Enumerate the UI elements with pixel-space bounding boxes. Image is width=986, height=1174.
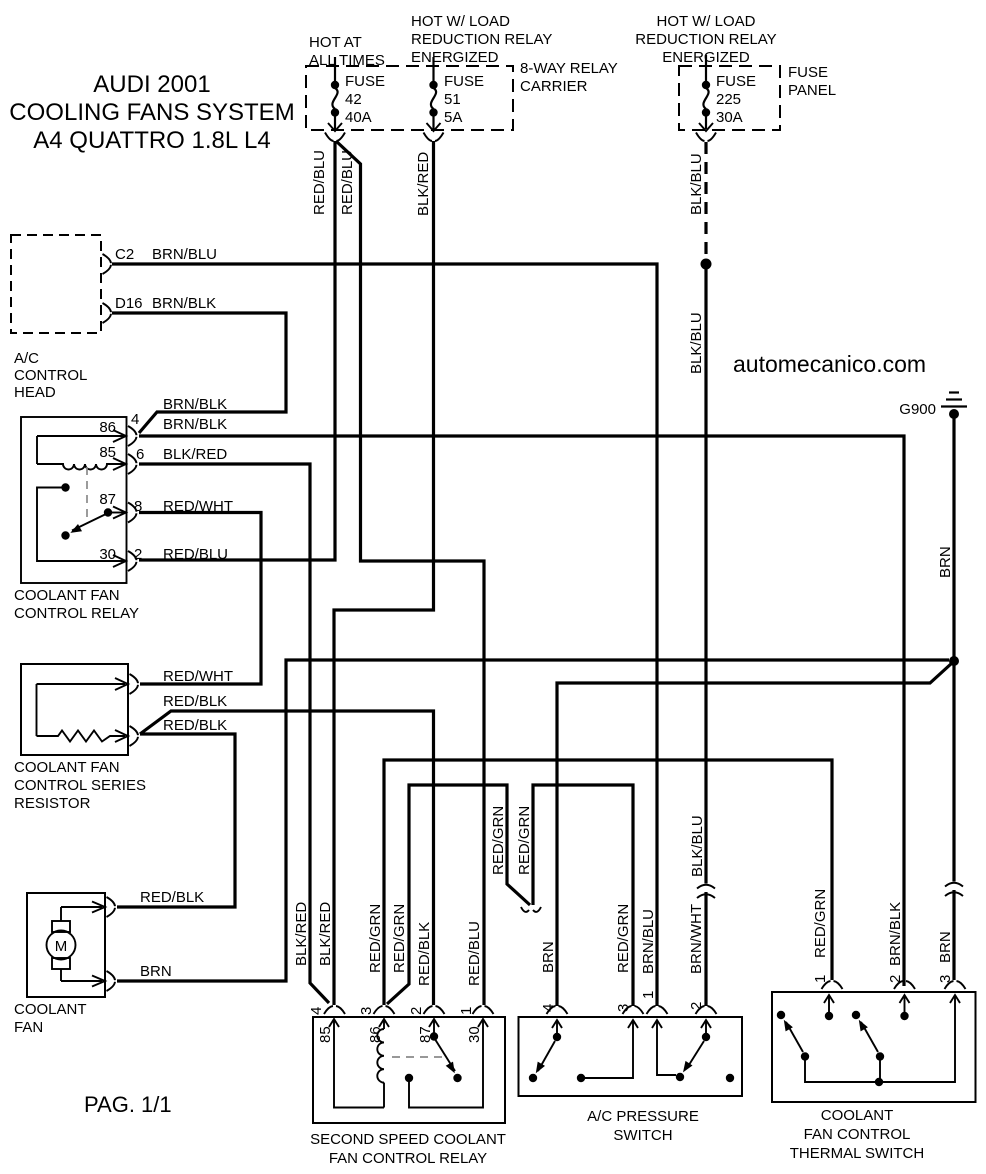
svg-text:3: 3 (937, 975, 954, 983)
svg-text:BRN/BLK: BRN/BLK (152, 295, 216, 312)
wire RED/WHT from relay pin 8 down to series resistor (139, 513, 261, 685)
svg-text:RED/BLK: RED/BLK (163, 693, 227, 710)
svg-text:2: 2 (408, 1007, 425, 1015)
svg-text:5A: 5A (444, 109, 462, 126)
wire RED/BLK from resistor to second speed relay pin 2 (140, 711, 434, 1005)
svg-text:A/C PRESSURE: A/C PRESSURE (587, 1108, 699, 1125)
coolant fan control series resistor box (21, 664, 128, 755)
svg-text:225: 225 (716, 91, 741, 108)
thermal switch pin 1 internal (824, 995, 834, 1003)
svg-text:RED/BLK: RED/BLK (163, 717, 227, 734)
connector fan bottom pin (107, 971, 116, 991)
wire BLK/BLU dashed from F225 to splice (704, 142, 707, 261)
resistor element (37, 731, 126, 742)
svg-text:BLK/RED: BLK/RED (415, 152, 432, 216)
svg-text:BRN/WHT: BRN/WHT (688, 904, 705, 974)
svg-text:RED/GRN: RED/GRN (490, 806, 507, 875)
thermal switch left contact and arm (777, 1011, 785, 1019)
terminal 86 internal with coil (379, 1019, 389, 1027)
wire BRN from junction down to thermal switch pin 3 (952, 664, 955, 882)
wire BRN/WHT from inline connector to A/C pressure switch pin 2 (704, 892, 707, 1006)
pressure switch pin 3 internal (577, 1074, 585, 1082)
wire BLK/RED from relay pin 6 down to second speed relay pin 4 (139, 464, 329, 1003)
svg-text:COOLANT: COOLANT (821, 1107, 894, 1124)
thermal switch center contact and arm (852, 1011, 860, 1019)
wire BRN from ground down to junction (952, 418, 955, 658)
svg-text:RED/GRN: RED/GRN (516, 806, 533, 875)
ground G900 (899, 393, 967, 420)
svg-text:1: 1 (640, 991, 657, 999)
fuse F42 40A (328, 57, 385, 131)
svg-text:BRN/BLU: BRN/BLU (640, 909, 657, 974)
svg-text:M: M (55, 938, 68, 955)
svg-text:RED/BLU: RED/BLU (311, 150, 328, 215)
connector pin 3 of thermal switch (945, 981, 966, 989)
svg-text:A/C: A/C (14, 350, 39, 367)
wire BLK/BLU solid from splice down to inline connector (704, 267, 707, 884)
connector pin 8 of relay (128, 503, 137, 523)
svg-text:BLK/BLU: BLK/BLU (688, 153, 705, 215)
coolant fan control thermal switch box (772, 992, 976, 1102)
connector pin 4 of relay (128, 426, 137, 446)
svg-text:D16: D16 (115, 295, 143, 312)
svg-text:FUSE: FUSE (345, 73, 385, 90)
svg-text:COOLANT FAN: COOLANT FAN (14, 587, 120, 604)
splice S1 (701, 259, 712, 270)
A/C pressure switch box (519, 1017, 743, 1096)
connector pin 2 of thermal switch (894, 981, 915, 989)
svg-text:86: 86 (99, 419, 116, 436)
svg-text:A4 QUATTRO 1.8L L4: A4 QUATTRO 1.8L L4 (33, 127, 270, 154)
svg-text:FAN CONTROL RELAY: FAN CONTROL RELAY (329, 1150, 487, 1167)
svg-text:BLK/BLU: BLK/BLU (688, 312, 705, 374)
terminal 85 internal (329, 1019, 339, 1027)
connector below fuse F225 (696, 133, 716, 142)
pressure switch pin 4 internal (552, 1020, 562, 1028)
svg-text:RED/BLK: RED/BLK (140, 889, 204, 906)
wire RED/GRN from second speed relay pin 3 to inline connector (387, 785, 530, 1004)
svg-text:FUSE: FUSE (716, 73, 756, 90)
svg-text:BLK/RED: BLK/RED (317, 902, 334, 966)
svg-text:2: 2 (887, 975, 904, 983)
coolant fan control relay box (21, 417, 127, 583)
svg-text:30: 30 (99, 546, 116, 563)
svg-text:RED/GRN: RED/GRN (615, 904, 632, 973)
svg-text:BRN/BLK: BRN/BLK (163, 416, 227, 433)
svg-text:85: 85 (317, 1026, 334, 1043)
wire BRN/BLK from relay pin 4 right to thermal switch pin 2 (139, 436, 904, 986)
svg-text:PANEL: PANEL (788, 82, 836, 99)
svg-text:1: 1 (812, 975, 829, 983)
resistor internal top lead (37, 683, 126, 685)
svg-text:RED/WHT: RED/WHT (163, 668, 233, 685)
svg-text:FUSE: FUSE (788, 64, 828, 81)
svg-text:30A: 30A (716, 109, 743, 126)
connector pin 2 of pressure switch (696, 1006, 717, 1014)
connector pin C2 (103, 254, 112, 274)
pressure switch pin 2 internal (701, 1020, 711, 1028)
svg-text:87: 87 (417, 1026, 434, 1043)
svg-text:RED/BLU: RED/BLU (466, 921, 483, 986)
svg-text:BLK/RED: BLK/RED (293, 902, 310, 966)
connector pin 3 of pressure switch (623, 1006, 644, 1014)
terminal 30 internal (405, 1074, 413, 1082)
wire BLK/RED from F51 down, jog left, to second speed relay pin 4 (334, 141, 434, 1005)
svg-text:8-WAY RELAY: 8-WAY RELAY (520, 60, 618, 77)
wire BRN/BLK from D16 to coolant fan control relay pin 4 (112, 313, 286, 433)
svg-text:CONTROL RELAY: CONTROL RELAY (14, 605, 139, 622)
connector pin 1 of thermal switch (822, 981, 843, 989)
connector fan top pin (107, 897, 116, 917)
svg-text:AUDI 2001: AUDI 2001 (93, 71, 210, 98)
svg-text:BRN/BLK: BRN/BLK (163, 396, 227, 413)
wire RED/BLU from F42 straight down to relay pin 2 (139, 141, 335, 560)
svg-text:87: 87 (99, 491, 116, 508)
mechanical link (86, 467, 88, 517)
connector pin 2 of relay (128, 551, 137, 571)
svg-text:ENERGIZED: ENERGIZED (411, 49, 499, 66)
svg-text:3: 3 (615, 1004, 632, 1012)
connector pin 4 (85) (324, 1006, 345, 1014)
svg-text:RED/GRN: RED/GRN (812, 889, 829, 958)
terminal 87 internal switch (429, 1019, 439, 1027)
fan motor M (47, 931, 76, 960)
second speed coolant fan control relay box (313, 1017, 505, 1123)
svg-text:30: 30 (466, 1026, 483, 1043)
svg-text:REDUCTION RELAY: REDUCTION RELAY (411, 31, 552, 48)
wire RED/BLK from resistor to coolant fan (117, 734, 235, 907)
wire RED/GRN from second speed relay pin 3 to thermal switch pin 1 (384, 760, 832, 1005)
svg-text:FAN: FAN (14, 1019, 43, 1036)
label HOT W/ LOAD REDUCTION RELAY ENERGIZED (right) (635, 13, 776, 66)
inline connector on BLK/BLU wire (697, 885, 715, 898)
connector pin 3 (86) (374, 1006, 395, 1014)
svg-text:G900: G900 (899, 401, 936, 418)
connector resistor top pin (130, 674, 139, 694)
svg-text:BRN: BRN (937, 931, 954, 963)
svg-text:RED/BLU: RED/BLU (163, 546, 228, 563)
svg-text:BRN/BLU: BRN/BLU (152, 246, 217, 263)
svg-text:RED/BLK: RED/BLK (416, 922, 433, 986)
relay switch arm 87 (72, 514, 106, 531)
svg-text:RED/GRN: RED/GRN (367, 904, 384, 973)
wire BRN/BLU from C2 to A/C pressure switch pin 1 (112, 264, 657, 1006)
wire BRN from fan to ground junction (117, 660, 949, 981)
svg-text:BRN/BLK: BRN/BLK (887, 902, 904, 966)
pressure switch spare contact (726, 1074, 734, 1082)
svg-text:4: 4 (540, 1004, 557, 1012)
connector pin D16 (103, 303, 112, 323)
svg-text:FUSE: FUSE (444, 73, 484, 90)
svg-text:HOT AT: HOT AT (309, 34, 362, 51)
svg-text:RED/BLU: RED/BLU (339, 150, 356, 215)
connector below fuse F42 (325, 133, 345, 142)
connector pin 1 of pressure switch (647, 1006, 668, 1014)
svg-text:CONTROL SERIES: CONTROL SERIES (14, 777, 146, 794)
svg-text:PAG. 1/1: PAG. 1/1 (84, 1092, 172, 1117)
svg-text:4: 4 (131, 411, 139, 428)
svg-text:COOLANT: COOLANT (14, 1001, 87, 1018)
A/C control head dashed box (11, 235, 101, 333)
8-way relay carrier dashed box (306, 66, 513, 130)
svg-text:BRN: BRN (540, 941, 557, 973)
svg-text:BRN: BRN (140, 963, 172, 980)
svg-text:C2: C2 (115, 246, 134, 263)
wire RED/GRN from A/C pressure switch pin 3 to inline connector (533, 785, 633, 1006)
thermal switch pin 2 internal (900, 995, 910, 1003)
wire RED/BLU second, diagonal from F42 down to second speed relay pin 1 (336, 141, 484, 1005)
svg-text:RESISTOR: RESISTOR (14, 795, 91, 812)
svg-text:SECOND SPEED COOLANT: SECOND SPEED COOLANT (310, 1131, 506, 1148)
svg-text:SWITCH: SWITCH (613, 1127, 672, 1144)
pressure switch pin 1 internal (652, 1020, 662, 1028)
svg-text:REDUCTION RELAY: REDUCTION RELAY (635, 31, 776, 48)
svg-text:COOLANT FAN: COOLANT FAN (14, 759, 120, 776)
fuse panel dashed box (679, 66, 780, 130)
svg-text:COOLING FANS SYSTEM: COOLING FANS SYSTEM (9, 99, 294, 126)
svg-text:86: 86 (367, 1026, 384, 1043)
svg-text:BLK/BLU: BLK/BLU (689, 815, 706, 877)
connector resistor bottom pin (130, 726, 139, 746)
relay switch contact (to 30) (61, 483, 69, 491)
svg-text:51: 51 (444, 91, 461, 108)
svg-text:BRN: BRN (937, 546, 954, 578)
connector pin 6 of relay (128, 454, 137, 474)
svg-text:2: 2 (134, 546, 142, 563)
svg-text:CONTROL: CONTROL (14, 367, 87, 384)
svg-text:HOT W/ LOAD: HOT W/ LOAD (411, 13, 510, 30)
connector below fuse F51 (424, 133, 444, 142)
svg-text:RED/GRN: RED/GRN (391, 904, 408, 973)
svg-text:1: 1 (458, 1007, 475, 1015)
svg-text:HOT W/ LOAD: HOT W/ LOAD (657, 13, 756, 30)
junction J1 (949, 656, 959, 666)
svg-text:2: 2 (688, 1002, 705, 1010)
svg-text:THERMAL SWITCH: THERMAL SWITCH (790, 1145, 924, 1162)
connector pin 4 of pressure switch (547, 1006, 568, 1014)
svg-text:42: 42 (345, 91, 362, 108)
svg-text:3: 3 (358, 1007, 375, 1015)
svg-text:CARRIER: CARRIER (520, 78, 588, 95)
connector pin 2 (87) (424, 1006, 445, 1014)
connector pin 1 (30) (473, 1006, 494, 1014)
mechanical link (392, 1056, 445, 1058)
wire BRN from A/C pressure switch pin 4 to junction (557, 663, 952, 1006)
fuse F225 30A (699, 55, 756, 131)
svg-text:4: 4 (308, 1007, 325, 1015)
svg-text:automecanico.com: automecanico.com (733, 351, 926, 377)
title block (9, 71, 294, 154)
inline connector on BRN wire (945, 883, 963, 896)
svg-text:6: 6 (136, 446, 144, 463)
svg-text:BLK/RED: BLK/RED (163, 446, 227, 463)
coolant fan box (27, 893, 105, 997)
svg-text:FAN CONTROL: FAN CONTROL (804, 1126, 911, 1143)
svg-text:40A: 40A (345, 109, 372, 126)
inline connector C (RED/GRN pair) (521, 907, 541, 912)
svg-text:RED/WHT: RED/WHT (163, 498, 233, 515)
relay coil (37, 464, 124, 470)
fuse F51 5A (427, 57, 485, 131)
relay switch contact (open) (61, 531, 69, 539)
thermal switch pin 3 internal (950, 995, 960, 1003)
svg-text:HEAD: HEAD (14, 384, 56, 401)
